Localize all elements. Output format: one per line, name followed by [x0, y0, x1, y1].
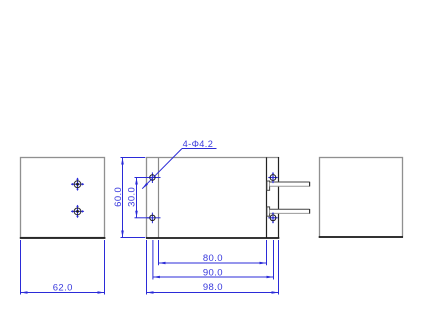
dimension 98.0 extension right: [278, 240, 280, 295]
dimension 90.0 line: [153, 276, 274, 278]
terminal position symbol T1: [71, 178, 84, 191]
middle view right edge: [278, 157, 280, 238]
leader arrowhead: [142, 183, 148, 189]
left view bottom edge (thick): [20, 237, 106, 239]
dimension 98.0 arrow right: [272, 291, 279, 294]
svg-text:62.0: 62.0: [53, 283, 73, 294]
middle view left edge: [146, 157, 148, 238]
dimension 30.0 arrow bottom: [135, 211, 138, 218]
leader underline: [182, 148, 217, 150]
terminal pin P1: [267, 181, 310, 190]
middle view bottom edge (thick): [146, 237, 279, 239]
flange hole H1 (top left): [147, 172, 161, 183]
svg-text:60.0: 60.0: [113, 187, 124, 207]
right view bottom edge (thick): [319, 236, 403, 238]
dimension 62.0 extension line left: [20, 240, 22, 295]
svg-text:4-Φ4.2: 4-Φ4.2: [183, 139, 214, 149]
left view outline: [21, 158, 105, 238]
right view outline: [320, 158, 403, 238]
dimension 60.0 arrow top: [121, 158, 124, 165]
dimension 98.0 extension left: [146, 240, 148, 295]
terminal pin P2: [267, 207, 310, 216]
dimension 62.0 line: [21, 292, 105, 294]
dimension 90.0 extension right: [273, 240, 275, 280]
dimension 60.0 extension bottom: [121, 237, 146, 239]
dimension 62.0 arrow right: [98, 291, 105, 294]
dimension 80.0 line: [159, 262, 267, 264]
middle view left flange inner edge: [158, 157, 160, 238]
dimension 80.0 extension right: [266, 240, 268, 265]
dimension 98.0 arrow left: [147, 291, 154, 294]
flange hole H3 (top right): [268, 172, 277, 184]
svg-text:90.0: 90.0: [203, 267, 223, 278]
leader line: [142, 149, 182, 189]
dimension 62.0 arrow left: [21, 291, 28, 294]
dimension 80.0 arrow left: [159, 262, 166, 265]
svg-text:30.0: 30.0: [126, 187, 137, 207]
svg-text:98.0: 98.0: [203, 282, 223, 293]
flange hole H2 (bottom left): [147, 213, 161, 224]
dimension 80.0 arrow right: [260, 262, 267, 265]
terminal position symbol T2: [71, 205, 84, 218]
dimension 90.0 arrow right: [267, 276, 274, 279]
dimension 60.0 line: [122, 158, 124, 238]
middle view top edge: [146, 157, 279, 159]
dimension 90.0 arrow left: [153, 276, 160, 279]
middle view right flange inner edge: [266, 157, 268, 238]
dimension 30.0 connector top: [135, 177, 150, 179]
dimension 60.0 arrow bottom: [121, 231, 124, 238]
dimension 30.0 connector bottom: [135, 217, 150, 219]
dimension 30.0 arrow top: [135, 178, 138, 185]
dimension 60.0 extension top: [121, 157, 146, 159]
dimension 98.0 line: [147, 292, 279, 294]
dimension 80.0 extension left: [158, 240, 160, 265]
dimension 30.0 line: [136, 178, 138, 218]
svg-text:80.0: 80.0: [203, 253, 223, 264]
dimension 62.0 extension line right: [104, 240, 106, 295]
dimension 90.0 extension left: [152, 240, 154, 280]
flange hole H4 (bottom right): [268, 212, 277, 224]
